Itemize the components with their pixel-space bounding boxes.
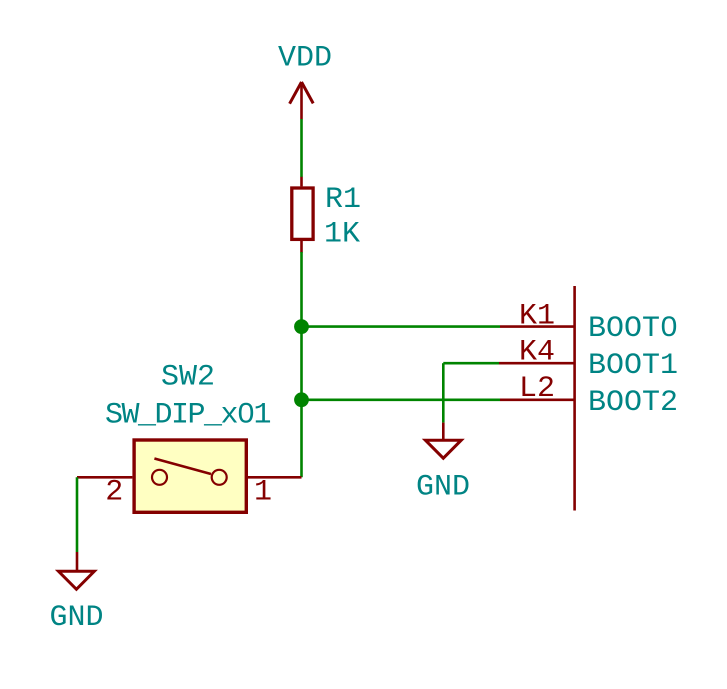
junction node at K1 row [294,319,309,334]
svg-text:GND: GND [416,471,470,505]
svg-text:BOOT2: BOOT2 [588,386,678,420]
component body edge (vertical line) [573,286,576,511]
svg-text:2: 2 [105,475,123,509]
pin L2 [500,398,575,401]
wire L2 row [302,398,501,401]
svg-text:K4: K4 [519,336,555,370]
wire K4 row [443,362,499,365]
svg-text:VDD: VDD [278,42,332,76]
switch SW2 body [134,440,246,512]
svg-text:K1: K1 [519,300,555,334]
wire K1 row [302,325,501,328]
pin 1 of SW2 [248,476,302,479]
resistor R1 pin 2 [300,241,303,253]
svg-text:BOOT1: BOOT1 [588,349,678,383]
ground symbol (middle) triangle [425,440,461,458]
pin 2 of SW2 [77,476,132,479]
resistor R1 body [292,188,313,239]
svg-text:1K: 1K [324,217,360,251]
svg-text:GND: GND [50,601,104,635]
ground symbol (middle) stem [442,423,445,439]
pin K4 [499,362,575,365]
wire R1 down to switch pin 1 [300,252,303,477]
wire VDD to R1 [300,119,303,177]
power symbol VDD (arrow) [290,82,314,119]
ground symbol (left) stem [76,552,79,570]
svg-text:BOOT0: BOOT0 [588,312,678,346]
svg-text:SW2: SW2 [161,361,215,395]
wire K4 row down to GND [442,363,445,422]
switch SW2 lever [154,459,211,475]
svg-text:1: 1 [254,475,272,509]
svg-text:L2: L2 [519,372,555,406]
ground symbol (left) triangle [59,571,95,589]
wire pin 2 down to GND [76,477,79,552]
resistor R1 pin 1 [300,177,303,187]
switch SW2 contact circle left [152,470,167,485]
pin K1 [500,325,575,328]
switch SW2 contact circle right [212,470,227,485]
junction node at L2 row [294,392,309,407]
svg-text:R1: R1 [325,183,361,217]
